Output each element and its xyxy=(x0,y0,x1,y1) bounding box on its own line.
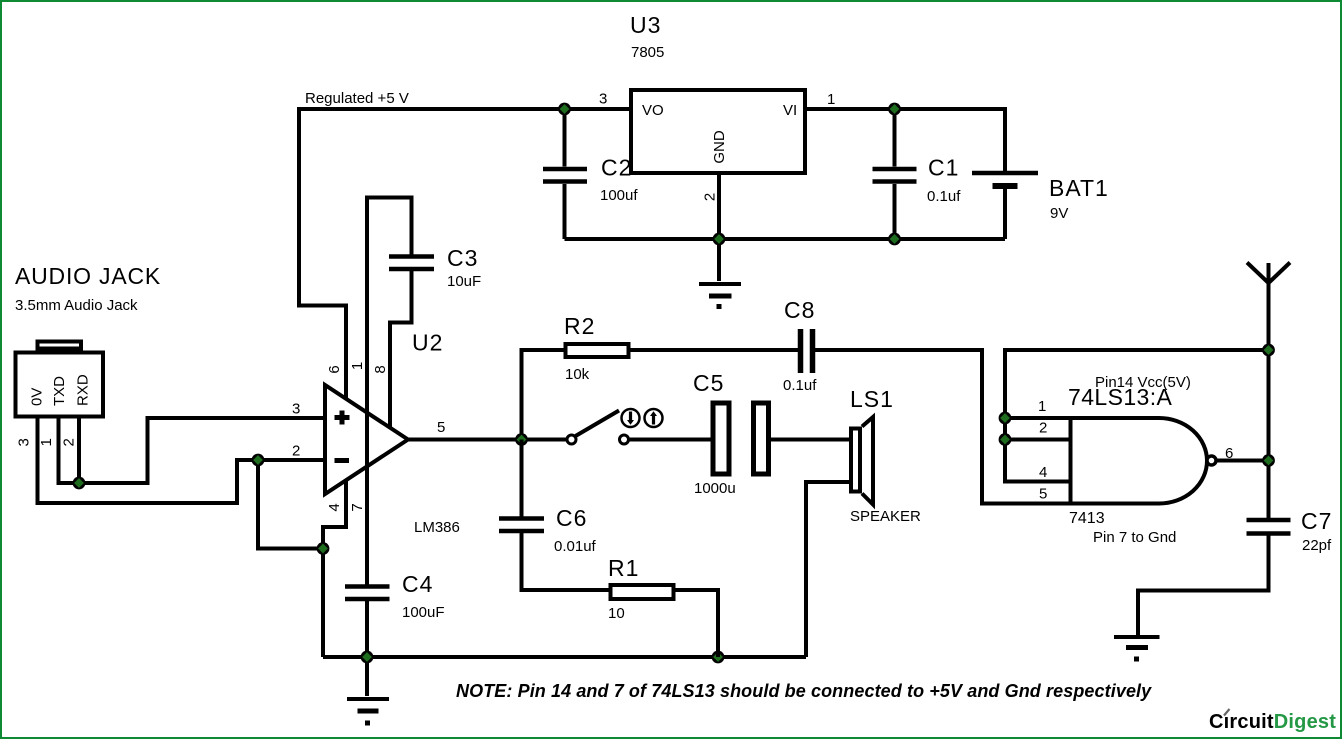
svg-text:U3: U3 xyxy=(630,12,661,38)
svg-text:C3: C3 xyxy=(447,245,478,271)
wire: J1 pin 2 stub xyxy=(77,417,81,484)
svg-text:C8: C8 xyxy=(784,297,815,323)
battery BAT1 negative plate xyxy=(993,183,1018,189)
wire: output node down to C6 xyxy=(520,440,524,517)
svg-text:7: 7 xyxy=(349,503,366,511)
svg-text:BAT1: BAT1 xyxy=(1049,175,1109,201)
wire: C3 bottom to op-amp pin 8 xyxy=(390,271,412,428)
svg-text:R2: R2 xyxy=(564,313,595,339)
SECTION: middle xyxy=(499,297,1071,657)
svg-text:VI: VI xyxy=(783,102,797,119)
resistor R1 xyxy=(611,585,674,599)
wire: U3 GND pin 2 to ground xyxy=(717,173,721,281)
svg-text:10k: 10k xyxy=(565,366,590,383)
resistor R2 xyxy=(566,344,629,357)
wire: feedback node down to ground rail xyxy=(321,549,325,658)
wire: C4 to ground symbol xyxy=(365,657,369,696)
svg-text:0.1uf: 0.1uf xyxy=(783,377,817,394)
svg-text:Regulated +5 V: Regulated +5 V xyxy=(305,90,409,107)
svg-text:VO: VO xyxy=(642,102,664,119)
svg-text:3: 3 xyxy=(292,401,300,418)
NAND gate U1 output bubble xyxy=(1207,456,1216,465)
capacitor C3 xyxy=(389,257,434,270)
svg-text:5: 5 xyxy=(437,419,445,436)
capacitor C5 left plate xyxy=(713,403,729,474)
antenna AE1 arms xyxy=(1247,263,1290,284)
svg-text:0V: 0V xyxy=(29,388,46,406)
svg-text:100uF: 100uF xyxy=(402,604,445,621)
SECTION: footer xyxy=(456,681,1336,733)
svg-text:3: 3 xyxy=(16,438,33,446)
svg-text:10: 10 xyxy=(608,605,625,622)
ground symbol right xyxy=(1114,635,1160,639)
svg-text:LS1: LS1 xyxy=(850,386,894,412)
junction: VI rail / C1 xyxy=(888,103,901,116)
svg-text:CırcuitDigest: CırcuitDigest xyxy=(1209,711,1336,733)
wire: output node up to R2 xyxy=(522,350,564,440)
svg-text:4: 4 xyxy=(1039,464,1047,481)
svg-text:Pin14 Vcc(5V): Pin14 Vcc(5V) xyxy=(1095,374,1191,391)
capacitor C7 xyxy=(1247,520,1291,534)
capacitor C5 right plate xyxy=(754,403,769,474)
wire: gate input pin 2 xyxy=(1005,438,1071,442)
svg-text:C6: C6 xyxy=(556,505,587,531)
junction: J1 pins 1-2 tied xyxy=(73,477,86,490)
svg-text:C5: C5 xyxy=(693,370,724,396)
wire: J1 pin 1 to op-amp non-inverting input xyxy=(59,417,326,484)
op-amp U2 plus mark xyxy=(335,411,350,425)
svg-text:9V: 9V xyxy=(1050,205,1068,222)
wire: R2 to C8 xyxy=(631,348,799,352)
switch SW1 right contact xyxy=(620,435,629,444)
wire: U3 VI to battery positive xyxy=(807,109,1005,173)
switch SW1 actuator up symbol xyxy=(645,409,663,427)
svg-text:TXD: TXD xyxy=(51,376,68,406)
capacitor C2 xyxy=(543,169,587,182)
svg-text:2: 2 xyxy=(292,443,300,460)
junction: ground rail / C1 xyxy=(888,233,901,246)
junction: ground rail / R1 xyxy=(712,651,725,664)
svg-text:U2: U2 xyxy=(412,330,443,356)
wire: op-amp pin 4 jog down xyxy=(323,481,346,549)
wire: J1 pin 3 to op-amp inverting input xyxy=(38,417,326,504)
svg-text:0.01uf: 0.01uf xyxy=(554,538,597,555)
wire: inverting input feedback down xyxy=(258,460,323,549)
svg-text:C2: C2 xyxy=(601,155,632,181)
wire: speaker return to ground rail xyxy=(806,482,849,657)
speaker LS1 horn xyxy=(862,417,873,505)
wire: op-amp output pin 5 xyxy=(408,438,567,442)
battery BAT1 positive plate xyxy=(972,171,1038,176)
svg-text:2: 2 xyxy=(61,438,78,446)
NAND gate U1 74LS13 body xyxy=(1071,418,1208,504)
wire: bottom ground rail xyxy=(323,655,806,659)
svg-text:1: 1 xyxy=(1038,398,1046,415)
svg-text:100uf: 100uf xyxy=(600,187,638,204)
junction: antenna / gate output xyxy=(1262,454,1275,467)
svg-text:RXD: RXD xyxy=(75,374,92,406)
SECTION: audio jack xyxy=(15,263,325,503)
switch SW1 left contact xyxy=(567,435,576,444)
capacitor C4 xyxy=(345,587,390,600)
capacitor C8 xyxy=(801,329,813,373)
svg-text:Pin 7 to Gnd: Pin 7 to Gnd xyxy=(1093,529,1176,546)
svg-text:C7: C7 xyxy=(1301,508,1332,534)
svg-text:R1: R1 xyxy=(608,555,639,581)
SECTION: 7805 regulator xyxy=(299,12,1109,399)
svg-text:22pf: 22pf xyxy=(1302,537,1332,554)
capacitor C1 top stem xyxy=(893,109,897,167)
ground symbol under U3 xyxy=(699,282,741,286)
wire: Vcc rail to antenna node and gate inputs 1-2-4 xyxy=(1005,350,1269,482)
svg-text:5: 5 xyxy=(1039,486,1047,503)
capacitor C1 bottom stem xyxy=(893,184,897,239)
svg-text:2: 2 xyxy=(1039,420,1047,437)
wire: ground rail under regulator xyxy=(565,237,1006,241)
junction: input rail / pin 1 xyxy=(999,412,1012,425)
wire: R1 to ground rail xyxy=(676,590,719,657)
junction: ground rail / U3 GND xyxy=(713,233,726,246)
audio jack J1 tab xyxy=(38,342,82,349)
svg-text:6: 6 xyxy=(326,365,343,373)
svg-text:2: 2 xyxy=(702,193,719,201)
voltage regulator U3 body xyxy=(631,90,805,173)
svg-text:3: 3 xyxy=(599,91,607,108)
wire: C8 to 74LS13 pin 5 xyxy=(815,350,1071,504)
capacitor C2 top stem xyxy=(563,109,567,167)
junction: inverting input / feedback xyxy=(252,454,265,467)
junction: +5V rail / C2 xyxy=(558,103,571,116)
svg-text:C1: C1 xyxy=(928,155,959,181)
wire: switch to C5 xyxy=(629,438,711,442)
capacitor C4 bottom stem xyxy=(365,601,369,657)
junction: input rail / pin 2 xyxy=(999,433,1012,446)
logo: accent over i xyxy=(1224,709,1230,716)
capacitor C2 bottom stem xyxy=(563,184,567,239)
wire: gate input pin 1 xyxy=(1005,416,1071,420)
svg-text:AUDIO JACK: AUDIO JACK xyxy=(15,263,161,289)
svg-text:1000u: 1000u xyxy=(694,480,736,497)
SECTION: op-amp xyxy=(252,198,806,724)
op-amp U2 minus mark xyxy=(335,458,350,463)
svg-text:C4: C4 xyxy=(402,571,433,597)
svg-text:1: 1 xyxy=(38,438,55,446)
svg-text:7413: 7413 xyxy=(1069,510,1105,527)
battery BAT1 bottom stem xyxy=(1003,189,1007,239)
svg-text:1: 1 xyxy=(349,362,366,370)
wire: C7 to ground symbol xyxy=(1138,536,1269,636)
svg-text:GND: GND xyxy=(711,130,728,164)
wire: C5 to speaker xyxy=(771,438,849,442)
wire: C6 to R1 xyxy=(522,533,609,590)
ground symbol under C4 xyxy=(347,697,389,701)
audio jack J1 body xyxy=(16,353,104,417)
junction: op-amp output node xyxy=(515,433,528,446)
speaker LS1 body xyxy=(851,429,860,492)
svg-text:10uF: 10uF xyxy=(447,273,481,290)
junction: antenna / Vcc rail xyxy=(1262,344,1275,357)
svg-text:1: 1 xyxy=(827,91,835,108)
capacitor C1 xyxy=(873,169,917,182)
junction: ground rail / C4 xyxy=(361,651,374,664)
switch SW1 lever xyxy=(576,411,620,437)
wire: regulated +5V rail from U3 VO to op-amp pin 6 xyxy=(299,109,631,399)
switch SW1 actuator down symbol xyxy=(622,409,640,427)
svg-text:NOTE: Pin 14 and 7 of 74LS13 s: NOTE: Pin 14 and 7 of 74LS13 should be c… xyxy=(456,681,1152,701)
svg-text:4: 4 xyxy=(326,503,343,511)
svg-text:8: 8 xyxy=(372,365,389,373)
op-amp U2 triangle xyxy=(325,385,408,494)
junction: feedback / pin4 / ground rail xyxy=(317,542,330,555)
antenna AE1 stem xyxy=(1267,263,1271,518)
SECTION: right gate xyxy=(999,263,1333,660)
svg-text:3.5mm Audio Jack: 3.5mm Audio Jack xyxy=(15,297,138,314)
capacitor C6 xyxy=(499,519,544,532)
svg-text:SPEAKER: SPEAKER xyxy=(850,508,921,525)
svg-text:LM386: LM386 xyxy=(414,519,460,536)
wire: gate output pin 6 to antenna net xyxy=(1216,459,1269,463)
wire: C3 top / op-amp pins 1-7 vertical to C4 xyxy=(367,198,412,585)
svg-text:0.1uf: 0.1uf xyxy=(927,188,961,205)
svg-text:7805: 7805 xyxy=(631,44,664,61)
